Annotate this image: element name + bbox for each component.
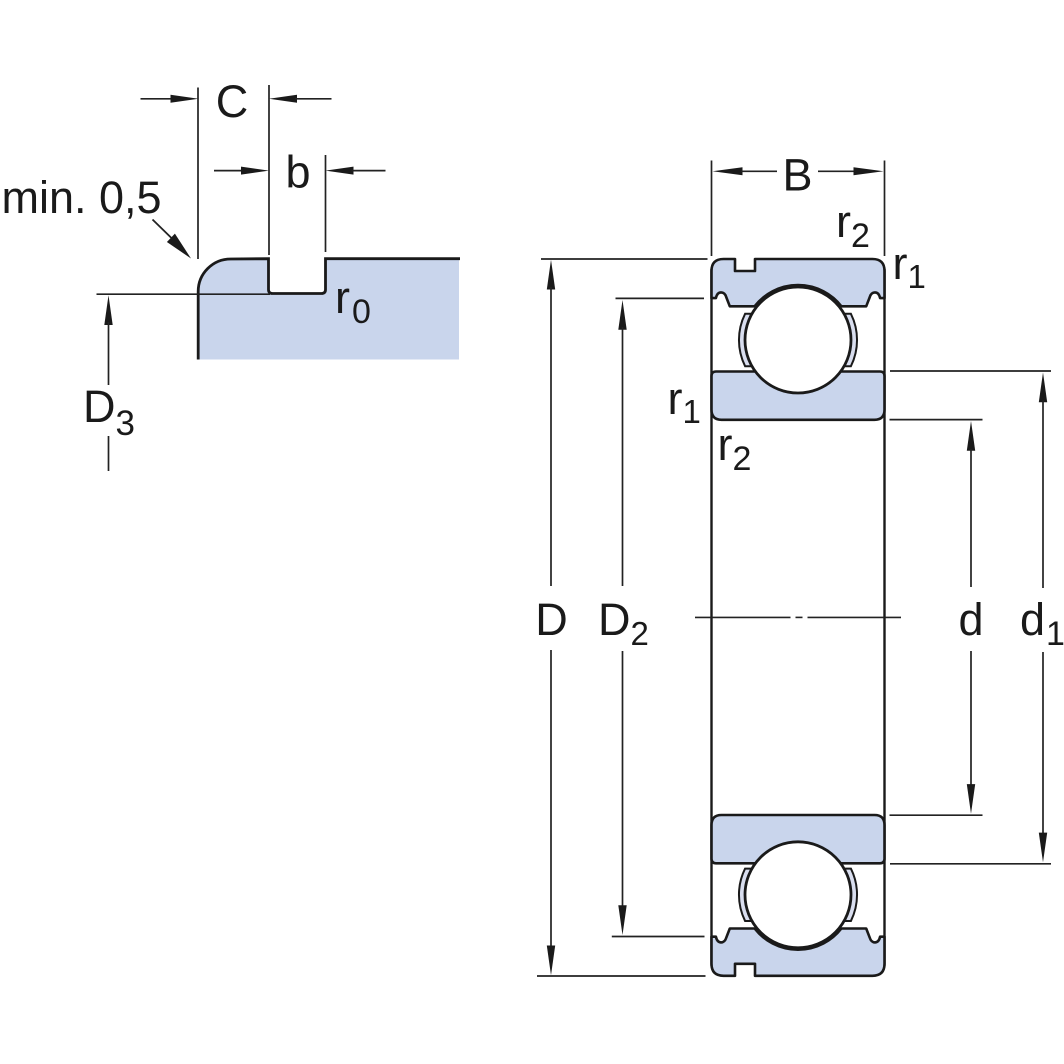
svg-text:B: B [782,150,812,201]
D bottom arrowhead (down) [547,946,555,976]
center line left segment [695,616,791,618]
B extension line left [711,161,713,257]
bearing left face line [710,269,712,966]
bearing bottom half (mirror of top half) [712,815,885,976]
D dimension line lower segment [550,650,552,948]
C dimension right leader line [295,98,332,100]
svg-text:D2: D2 [598,594,649,652]
D3 dimension line lower segment [108,436,110,471]
d1 dimension line upper segment [1042,400,1044,588]
outer ring upper section (with snap ring notch and seal-groove humps) [712,259,885,306]
inner ring upper section [712,372,885,420]
C/b shared extension line (groove left edge) [268,85,270,255]
center line right segment [808,616,902,618]
B right arrowhead (right-pointing) [854,167,884,175]
svg-text:r1: r1 [893,238,926,295]
D2 bottom arrowhead (down) [618,905,626,935]
d1 extension line top [890,370,1051,372]
d1 extension line bottom [890,863,1051,865]
D2 extension line bottom [612,936,705,938]
b right arrowhead (left-pointing) [326,167,354,175]
b dimension left leader line [214,170,243,172]
D3 dimension line upper segment [108,322,110,385]
D dimension line upper segment [550,287,552,586]
C right arrowhead (left-pointing) [269,95,297,103]
d top arrowhead (up) [967,421,975,451]
ball upper [745,287,851,393]
C dimension left leader line [141,98,172,100]
svg-text:d: d [958,594,983,645]
svg-text:C: C [216,76,249,127]
d dimension line lower segment [970,651,972,786]
min. 0,5 leader arrowhead [167,234,191,259]
b dimension right leader line [352,170,386,172]
D3 groove-bottom level line [97,293,271,295]
D extension line top [541,258,708,260]
D2 top arrowhead (up) [618,300,626,330]
bearing right face line [883,269,885,966]
B dimension line right segment [818,170,855,172]
svg-text:r1: r1 [668,373,701,430]
B extension line right [884,161,886,257]
svg-text:r2: r2 [836,196,870,255]
B left arrowhead (left-pointing) [713,167,743,175]
C extension line left (ring face) [197,88,199,260]
outer ring detail section fill [198,259,459,360]
d extension line bottom [890,814,983,816]
d1 dimension line lower segment [1042,652,1044,835]
B dimension line left segment [741,170,777,172]
d1 bottom arrowhead (down) [1039,833,1047,863]
bearing top half group [712,259,885,420]
raceway shoulder crescent right [844,314,857,366]
D2 dimension line lower segment [622,651,624,908]
svg-text:D: D [535,594,568,645]
d dimension line upper segment [970,449,972,587]
D2 dimension line upper segment [622,327,624,586]
b extension line right (groove right edge) [325,155,327,252]
svg-text:min. 0,5: min. 0,5 [2,172,162,223]
D3 arrowhead (up) [104,295,112,325]
C left arrowhead (right-pointing) [171,95,199,103]
svg-text:r2: r2 [718,419,752,478]
d1 top arrowhead (up) [1039,373,1047,403]
D top arrowhead (up) [547,260,555,290]
outer ring detail outline with snap ring groove [198,259,460,360]
d extension line top [890,419,983,421]
raceway shoulder crescent left [739,314,752,366]
min. 0,5 leader line [153,220,174,240]
D extension line bottom [537,975,706,977]
svg-text:b: b [285,147,310,198]
svg-text:D3: D3 [83,381,135,443]
svg-text:d1: d1 [1020,594,1064,653]
center line short dash [796,616,803,618]
D2 extension line top [616,297,705,299]
b left arrowhead (right-pointing) [241,167,269,175]
d bottom arrowhead (down) [967,784,975,814]
